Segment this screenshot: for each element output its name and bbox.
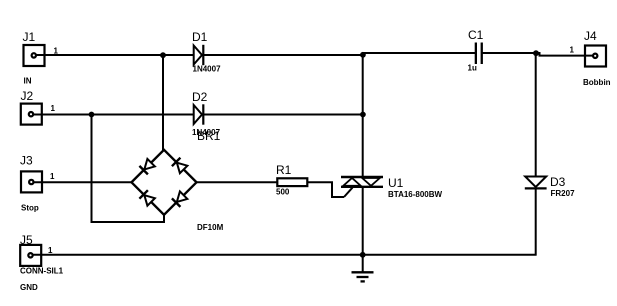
wire node to C1 left plate [362,52,476,54]
svg-text:1u: 1u [468,64,477,73]
svg-text:GND: GND [20,283,38,292]
svg-text:J5: J5 [20,233,33,247]
connector J3 [21,171,42,192]
svg-text:D1: D1 [192,30,208,44]
connector J1 [24,45,45,66]
wire vertical from D1 line down to bridge top vertex [162,55,164,151]
wire J3 to bridge left vertex [32,181,133,183]
svg-text:Stop: Stop [21,203,39,212]
svg-text:Bobbin: Bobbin [583,78,611,87]
connector J2 [21,104,42,125]
wire D2 cathode to node at x363 [203,114,364,116]
svg-text:R1: R1 [276,163,292,177]
svg-text:U1: U1 [388,176,404,190]
wire node to J4 pin [536,53,595,56]
bridge diode upper-right [172,158,188,174]
svg-text:D3: D3 [550,175,566,189]
svg-text:BR1: BR1 [197,129,221,143]
node dot D1/C1 junction [360,52,366,58]
svg-text:1N4007: 1N4007 [193,65,222,74]
node dot J2 junction [89,112,95,118]
diode D1 [194,45,204,65]
diode D2 [194,104,204,124]
svg-text:1: 1 [48,246,53,255]
svg-text:J4: J4 [584,29,597,43]
wire bridge right vertex to R1 [196,181,278,183]
wire bottom J5 to right corner [31,254,537,256]
svg-text:500: 500 [276,188,290,197]
node dot C1/J4/D3 junction [533,50,539,56]
svg-text:1: 1 [51,104,56,113]
svg-text:J1: J1 [23,30,36,44]
svg-text:J2: J2 [21,89,34,103]
svg-text:CONN-SIL1: CONN-SIL1 [20,267,64,276]
wire vertical D3 branch lower [535,188,537,256]
svg-text:D2: D2 [192,90,208,104]
wire D1 cathode to node at x363 [203,54,364,56]
wire J2 to D2 anode [31,114,194,116]
wire J1 to D1 anode [34,54,194,56]
connector J4 [585,46,606,67]
svg-text:DF10M: DF10M [197,223,224,232]
svg-text:1: 1 [50,172,55,181]
wire vertical U1 MT2 up to D1/D2 nodes [362,53,364,178]
bridge diode lower-left [139,190,155,206]
bridge rectifier BR1 [132,150,197,215]
capacitor C1 [475,43,483,65]
wire R1 to U1 gate [307,182,344,197]
svg-text:1: 1 [54,47,59,56]
node dot ground junction [360,252,366,258]
connector J5 [20,245,41,266]
bridge diode lower-right [172,191,188,207]
triac U1 [341,177,383,197]
resistor R1 [277,178,307,186]
wire vertical U1 MT1 down to ground node [362,187,364,256]
wire C1 right plate to node at x536 [482,52,537,54]
svg-text:FR207: FR207 [551,189,576,198]
svg-text:C1: C1 [468,28,484,42]
ground [352,255,374,282]
svg-text:J3: J3 [20,154,33,168]
svg-text:1: 1 [570,46,575,55]
svg-text:IN: IN [24,76,32,85]
bridge diode upper-left [139,158,155,174]
node dot D1 anode / bridge vertical junction [160,52,166,58]
node dot D2/MT2 junction [360,112,366,118]
wire vertical from J2 junction down and right to bridge bottom vertex [92,115,165,223]
svg-text:BTA16-800BW: BTA16-800BW [388,190,443,199]
diode D3 [525,177,547,189]
wire vertical D3 branch upper [535,53,537,177]
